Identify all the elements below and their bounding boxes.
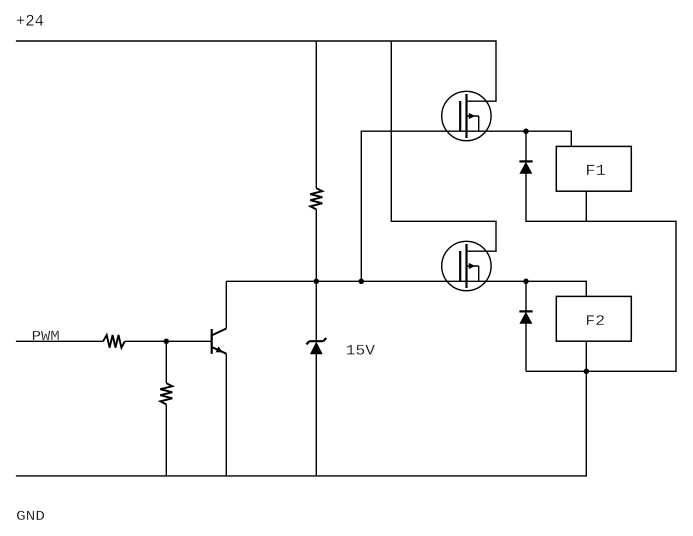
diode D1 bbox=[519, 161, 532, 173]
node PWM label bbox=[33, 331, 59, 340]
wire junction down to R3 bbox=[165, 341, 167, 383]
transistor Q1 BJT bbox=[212, 329, 227, 354]
wire zener to GND rail bbox=[315, 354, 317, 476]
wire return down to GND bbox=[16, 371, 586, 476]
diode D2 bbox=[519, 311, 532, 323]
wire rail to lower MOSFET drain elbow bbox=[391, 41, 496, 251]
wire PWM input bbox=[16, 340, 103, 342]
transistor Q2 upper MOSFET bbox=[442, 91, 491, 140]
wire diode D1 to return bbox=[526, 174, 676, 372]
node junction dot upper source bbox=[523, 128, 529, 134]
component F2 box bbox=[556, 296, 631, 341]
wire diode D2 to return bbox=[525, 324, 527, 372]
wire F1 bottom exit bbox=[585, 191, 587, 221]
label F2 bbox=[587, 315, 604, 325]
resistor R3 bbox=[160, 383, 172, 404]
wire dot to F2 top bbox=[526, 281, 586, 296]
node junction dot PWM-pulldown bbox=[164, 339, 170, 345]
wire dot to diode D2 bbox=[525, 281, 527, 311]
node junction dot F2 return bbox=[584, 369, 590, 375]
node junction dot lower source bbox=[523, 279, 529, 285]
wire Q1 emitter to GND rail bbox=[225, 354, 227, 476]
wire gate bus from BJT collector bbox=[226, 280, 526, 282]
wire +24 rail bbox=[16, 41, 496, 101]
wire upper gate from bus bbox=[361, 131, 571, 281]
resistor R1 bbox=[310, 188, 322, 209]
wire R1 to zener bbox=[315, 209, 317, 341]
wire dot to diode D1 bbox=[525, 131, 527, 161]
wire R2 to base bbox=[125, 340, 212, 342]
wire rail tap down to R1 bbox=[315, 41, 317, 188]
wire F2 bottom exit bbox=[585, 341, 587, 371]
node junction dot bus-zener bbox=[314, 279, 320, 285]
node GND label bbox=[17, 511, 44, 520]
wire Q1 collector to gate bus bbox=[225, 281, 227, 328]
resistor R2 bbox=[103, 335, 125, 348]
transistor Q3 lower MOSFET bbox=[442, 241, 491, 290]
label F1 bbox=[587, 165, 605, 175]
value label 15V bbox=[347, 345, 375, 355]
node +24 label bbox=[17, 15, 43, 26]
node junction dot bus-upper-gate bbox=[359, 279, 365, 285]
component F1 box bbox=[556, 146, 631, 191]
wire R3 to GND rail bbox=[165, 404, 167, 476]
zener diode D3 15V bbox=[306, 338, 326, 354]
